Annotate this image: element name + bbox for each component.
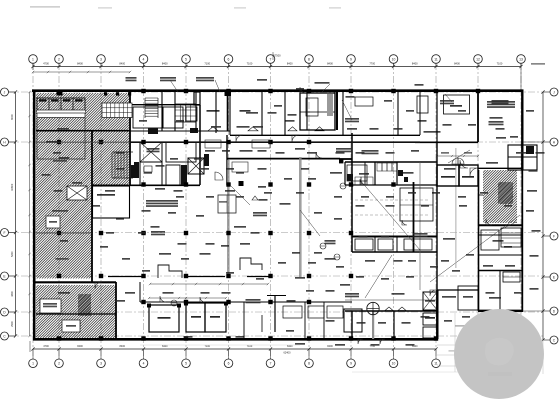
wall y311 east part [345, 310, 437, 312]
svg-text:8: 8 [308, 362, 310, 366]
wall x413 thick [413, 182, 415, 252]
grid bubble bottom axis 5 [182, 359, 191, 368]
right dimension line [542, 92, 544, 340]
white cutouts in left hatch strip [62, 320, 80, 332]
small room corridor south [458, 286, 478, 310]
wall core east x200 [199, 105, 201, 185]
annotation text smudges [126, 77, 137, 79]
svg-text:4300: 4300 [11, 291, 14, 297]
svg-text:6: 6 [228, 362, 230, 366]
equipment pad top right a [417, 96, 428, 113]
wall x227 segment [226, 135, 228, 185]
triangle level marker [252, 196, 258, 200]
faint site dimension lines bottom right [437, 365, 540, 367]
wall wing y168 [478, 167, 523, 169]
grid bubble bottom axis 6 [224, 359, 233, 368]
svg-text:2900: 2900 [11, 321, 14, 327]
svg-text:3: 3 [100, 362, 102, 366]
grid bubble bottom axis 7 [266, 359, 275, 368]
wall corridor south y158 [227, 158, 340, 160]
grid bubble bottom axis 10 [389, 359, 398, 368]
gray shaft band x228 [227, 160, 230, 277]
svg-text:1: 1 [32, 57, 34, 61]
wall x394 lower [393, 311, 395, 339]
door marks top rooms [208, 127, 218, 131]
svg-text:10: 10 [392, 362, 396, 366]
wall bottom exterior [33, 338, 438, 341]
grid bubble bottom axis 9 [347, 359, 356, 368]
booth partitions left [158, 265, 182, 278]
wall left zone x116 lower [115, 282, 117, 338]
extra top-right partitions [419, 91, 421, 135]
wall x337 kitchen east thick [336, 91, 338, 130]
grid bubble top axis 5 [182, 55, 191, 64]
wall y302 bottom rooms north [140, 301, 352, 303]
small black box room [194, 92, 200, 105]
faint top-edge text marks [30, 6, 60, 8]
wall hatch band bottom y131 [36, 130, 130, 132]
bottom dimension line [33, 348, 436, 350]
grid bubble right axis J [550, 88, 558, 96]
gray shaft band x300 [299, 157, 302, 277]
core cluster rooms [133, 107, 163, 128]
leader lines [360, 180, 420, 250]
svg-text:2: 2 [58, 362, 60, 366]
axis line through strip [36, 232, 92, 234]
column blob x241 [239, 181, 244, 186]
black shaft block [181, 165, 187, 185]
wall x365 [364, 162, 366, 185]
svg-text:8400: 8400 [162, 62, 168, 66]
lobby dim line [437, 155, 478, 157]
fixture dark c [404, 177, 408, 182]
svg-text:4700: 4700 [43, 345, 49, 348]
svg-text:1: 1 [32, 362, 34, 366]
duct shaft a [166, 165, 180, 185]
bottom extra partition [323, 302, 325, 339]
text block top right room [487, 101, 515, 103]
hall inner dim line y284 [150, 283, 268, 285]
wall left exterior [33, 90, 36, 341]
grid bubble top axis 1 [29, 55, 38, 64]
wall wing y270 [478, 270, 523, 272]
wall y142 east segment [415, 141, 478, 143]
scale text right of dim line [531, 63, 545, 65]
svg-text:8400: 8400 [287, 62, 293, 66]
wall x352 [351, 133, 353, 252]
right attachment room block [508, 145, 537, 170]
toilet stalls [377, 163, 382, 171]
wall x375 [374, 162, 376, 185]
grid bubble right axis C [550, 336, 558, 344]
service room core [166, 142, 196, 162]
grid bubble top axis 9 [347, 55, 356, 64]
wall x437 corridor east [436, 142, 438, 339]
wall right exterior upper [521, 90, 523, 170]
shop room D box [344, 309, 362, 332]
bottom grid bubbles [32, 349, 34, 359]
column at 340/159 [339, 159, 343, 163]
svg-text:7100: 7100 [204, 345, 210, 348]
svg-text:8400: 8400 [77, 345, 83, 348]
grid bubble bottom axis 8 [305, 359, 314, 368]
core extra black bits [148, 128, 158, 134]
wall x305 lower [304, 302, 306, 339]
svg-text:8: 8 [308, 57, 310, 61]
svg-text:8400: 8400 [412, 62, 418, 66]
wall east wing bottom [478, 310, 523, 312]
wall wing y225 [478, 224, 523, 226]
wall x437 lower thick [436, 290, 438, 339]
shop room C box [205, 303, 226, 332]
kitchen room box [300, 93, 335, 130]
svg-text:7100: 7100 [204, 62, 210, 66]
grid bubble top axis 12 [474, 55, 483, 64]
svg-text:3: 3 [100, 57, 102, 61]
svg-text:4: 4 [143, 57, 145, 61]
svg-text:10800: 10800 [11, 183, 14, 191]
core locker grid table [175, 104, 196, 122]
gray shaft band corridor east [455, 148, 457, 268]
wall x397 [396, 162, 398, 185]
hall service counter box [218, 195, 236, 213]
D axis wall segments y276 [108, 276, 143, 278]
wall partition x343 [342, 91, 344, 135]
wall core north y105 [130, 104, 200, 106]
cutout pump room [40, 299, 61, 313]
shop room B box [186, 303, 205, 332]
svg-text:9: 9 [350, 57, 352, 61]
grid bubble bottom axis 4 [139, 359, 148, 368]
top-left hatch labels [46, 141, 58, 143]
svg-text:62400: 62400 [284, 352, 292, 355]
wing bottom dim stub [523, 310, 543, 312]
meter room label box [423, 313, 437, 325]
double door arcs lobby [452, 158, 458, 164]
attachment dark fixture [526, 146, 534, 154]
second left dim tick column [29, 92, 31, 336]
structural columns [141, 182, 145, 186]
lift shaft 1 [140, 142, 162, 162]
water room box left-mid [93, 186, 130, 218]
duct shaft b [186, 107, 197, 121]
svg-text:8400: 8400 [119, 345, 125, 348]
cutout white room in hatch band [146, 112, 180, 128]
misc fixtures mid [232, 162, 248, 172]
fixture dark a [347, 174, 353, 181]
east rooms extra detail [344, 162, 346, 185]
grid bubble top axis 4 [139, 55, 148, 64]
second top dim line segment [33, 71, 130, 73]
more bottom row partitions [243, 302, 245, 339]
svg-text:8400: 8400 [287, 345, 293, 348]
svg-text:4: 4 [143, 362, 145, 366]
grid bubble top axis 13 [517, 55, 526, 64]
grid bubble top axis 7 [266, 55, 275, 64]
meter room upper box [423, 292, 437, 310]
svg-text:9: 9 [350, 362, 352, 366]
svg-text:11: 11 [434, 57, 438, 61]
svg-text:12: 12 [476, 57, 480, 61]
grid bubble top axis 8 [305, 55, 314, 64]
svg-text:6000: 6000 [11, 114, 14, 120]
bottom fixture a [283, 306, 302, 318]
second equipment table left [102, 103, 132, 118]
lift lobby room 1 [437, 165, 459, 186]
svg-text:5: 5 [185, 57, 187, 61]
bottom fixture b [308, 306, 324, 318]
wall wing x500 [499, 270, 501, 311]
stair treads top-left [111, 152, 113, 178]
svg-text:8400: 8400 [119, 62, 125, 66]
dim line y300 east [345, 299, 437, 301]
door swing arcs [236, 135, 243, 142]
horizontal grid axis lines [8, 91, 543, 93]
svg-text:F: F [3, 231, 5, 235]
wall left zone y314 [36, 313, 116, 315]
svg-text:8400: 8400 [327, 345, 333, 348]
grid bubble left axis D [1, 308, 9, 316]
left dimension line [15, 92, 17, 336]
grid bubble right axis F [550, 232, 558, 240]
svg-text:7700: 7700 [369, 62, 375, 66]
wall top right partition x478 [477, 91, 479, 142]
black column blob axis2 top wall [57, 91, 63, 96]
svg-text:8400: 8400 [454, 62, 460, 66]
svg-text:6: 6 [228, 57, 230, 61]
stair treads in core [145, 97, 158, 99]
svg-text:5200: 5200 [11, 251, 14, 257]
detail marker circles [334, 254, 340, 260]
wall corridor y290 [437, 289, 478, 291]
white band strip in hatch [37, 110, 85, 118]
grid bubble right axis H [550, 138, 558, 146]
service room below lift [140, 162, 162, 185]
watermark disc [454, 309, 544, 399]
top room fixture c [355, 97, 373, 106]
svg-text:7100: 7100 [497, 62, 503, 66]
grid bubble bottom axis 2 [55, 359, 64, 368]
black columns on F axis in hatch [57, 140, 61, 144]
wall x420 corridor west [419, 162, 421, 290]
dashed ceiling lines east block [355, 199, 430, 201]
P7B box [423, 327, 437, 338]
svg-text:8400: 8400 [327, 62, 333, 66]
wall core south y185 [92, 184, 200, 186]
shop room A box [149, 305, 179, 332]
wall wing y255 [478, 254, 523, 256]
shaft box in left strip [67, 186, 87, 200]
svg-text:13: 13 [519, 57, 523, 61]
svg-text:11: 11 [434, 362, 438, 366]
vertical grid axis lines [32, 63, 34, 360]
kitchen gray duct [327, 94, 333, 116]
svg-text:2: 2 [58, 57, 60, 61]
svg-text:7100: 7100 [247, 345, 253, 348]
grid bubble right axis D [550, 307, 558, 315]
svg-text:7: 7 [270, 57, 272, 61]
svg-text:7: 7 [270, 362, 272, 366]
wall y252 [352, 251, 437, 253]
wing shelving box [501, 228, 521, 247]
wing extra rooms [478, 194, 483, 196]
lift lobby room 2 [459, 165, 478, 186]
mini dim line above shop boxes [149, 297, 226, 299]
svg-text:10: 10 [392, 57, 396, 61]
wall right exterior wing [521, 170, 523, 312]
column blob x227 top wall [225, 90, 232, 97]
svg-text:7100: 7100 [247, 62, 253, 66]
wall corridor north y135 [230, 134, 420, 136]
grid bubble left axis F [1, 229, 9, 237]
store box [378, 239, 393, 250]
wall x227 thick top rooms [227, 91, 229, 131]
grid bubble right axis E [550, 273, 558, 281]
grid bubble bottom axis 3 [97, 359, 106, 368]
grid bubble bottom axis 11 [432, 359, 441, 368]
wall left strip east x92 [91, 131, 93, 282]
grid bubble top axis 6 [224, 55, 233, 64]
wall stub y159 [340, 158, 352, 160]
wing small room box [481, 230, 499, 250]
svg-text:8400: 8400 [77, 62, 83, 66]
top band extra partitions/fixtures [268, 112, 277, 114]
wall y236 east rooms thick [352, 236, 437, 238]
pantry box [355, 239, 373, 250]
grid bubble left axis H [1, 138, 9, 146]
grid bubble top axis 11 [432, 55, 441, 64]
wall left zone y282 [33, 281, 116, 283]
wall west side of east wing [478, 170, 480, 311]
svg-text:F: F [553, 234, 555, 238]
black shaft block 2 [131, 165, 139, 178]
sub-room outline in hatch [37, 113, 85, 159]
wall x140 corridor edge [139, 282, 141, 302]
lift shaft 2 [188, 158, 204, 174]
top dimension line [33, 66, 521, 68]
wall stub y295 [267, 295, 286, 297]
wall partition x398 [397, 91, 399, 135]
wall top exterior [32, 89, 524, 92]
top room partition walls [161, 91, 163, 131]
wall x275 lower [274, 295, 276, 332]
svg-text:5: 5 [185, 362, 187, 366]
fixture dark b [398, 170, 403, 176]
axis G wall line across plan [36, 141, 130, 143]
cell row top-left (hatched cells) [37, 98, 85, 113]
equipment pad top right b [444, 95, 470, 114]
kitchen equipment [306, 98, 318, 116]
grid bubble bottom axis 1 [29, 359, 38, 368]
grid bubble top axis 10 [389, 55, 398, 64]
wall x352 lower [351, 311, 353, 339]
wall y185 east rooms [345, 184, 437, 186]
grid bubble top axis 2 [55, 55, 64, 64]
grid bubble top axis 3 [97, 55, 106, 64]
wall y162 east rooms north [345, 161, 437, 163]
svg-text:4700: 4700 [43, 62, 49, 66]
overall dim stub [272, 52, 274, 60]
revolving door circle [367, 302, 379, 314]
gray divider x373 lower [372, 311, 374, 339]
black shaft block 3 [204, 154, 209, 166]
grid bubble left axis J [1, 88, 9, 96]
svg-text:8400: 8400 [162, 345, 168, 348]
wall core west x130 [129, 90, 131, 185]
grid bubble left axis C [1, 332, 9, 340]
black marks along top wall right part [104, 92, 107, 95]
grid bubble left axis E [1, 272, 9, 280]
